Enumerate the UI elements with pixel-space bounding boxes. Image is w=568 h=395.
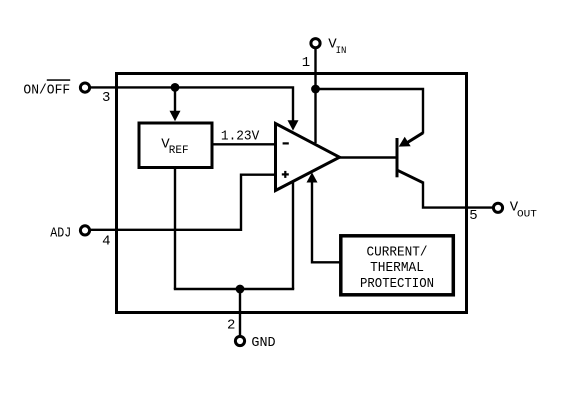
- wire ON/OFF pin to shutdown input: [90, 87, 294, 121]
- svg-text:4: 4: [102, 233, 110, 249]
- svg-text:ADJ: ADJ: [50, 225, 71, 241]
- wire branch down to VREF: [174, 87, 176, 112]
- wire ADJ to non-inverting input: [90, 175, 277, 230]
- junction dot GND node: [236, 285, 245, 294]
- wire op-amp ground down: [292, 181, 294, 290]
- transistor Q1 emitter diagonal: [404, 133, 423, 145]
- pin 2 GND terminal: [235, 336, 244, 345]
- IC outline box U1: [117, 74, 467, 313]
- ground bus wire: [174, 288, 294, 290]
- svg-text:3: 3: [102, 90, 110, 106]
- arrowhead shutdown into op-amp top: [288, 120, 299, 130]
- svg-text:CURRENT/: CURRENT/: [367, 244, 428, 260]
- wire VIN supply into op-amp: [314, 89, 316, 143]
- op-amp error amplifier A1: [276, 124, 340, 191]
- svg-text:1: 1: [302, 55, 310, 71]
- transistor Q1 base bar: [396, 138, 399, 177]
- pin 3 ON/OFF terminal: [80, 83, 89, 92]
- voltage reference VREF box: [139, 123, 212, 168]
- svg-text:5: 5: [469, 208, 477, 224]
- svg-text:PROTECTION: PROTECTION: [360, 276, 434, 292]
- wire GND node to pin 2: [239, 289, 241, 336]
- current/thermal protection block: [341, 236, 454, 295]
- pin 4 ADJ terminal: [80, 226, 89, 235]
- wire VIN to transistor emitter: [316, 89, 424, 134]
- wire op-amp output to base: [338, 156, 396, 158]
- svg-text:REF: REF: [169, 145, 189, 157]
- overline over OFF: [47, 79, 70, 81]
- pin 1 VIN terminal: [311, 39, 320, 48]
- svg-text:THERMAL: THERMAL: [370, 260, 424, 276]
- arrowhead emitter PNP: [399, 137, 411, 147]
- pin 5 VOUT terminal: [493, 203, 502, 212]
- wire VIN pin down: [314, 48, 316, 90]
- wire VREF ground down: [174, 168, 176, 290]
- junction dot VIN node: [311, 85, 320, 94]
- svg-text:2: 2: [227, 317, 235, 333]
- wire VREF output (1.23V) to inverting input: [212, 143, 276, 145]
- wire collector to VOUT pin: [423, 182, 493, 208]
- transistor Q1 collector diagonal: [398, 170, 424, 182]
- plus sign non-inverting input: [282, 173, 289, 175]
- svg-text:ON/OFF: ON/OFF: [23, 83, 70, 99]
- junction dot ON/OFF branch node: [171, 83, 180, 92]
- svg-text:GND: GND: [251, 335, 275, 351]
- arrowhead into VREF top: [170, 111, 181, 121]
- svg-text:1.23V: 1.23V: [221, 128, 260, 144]
- arrowhead protection into op-amp bottom: [307, 172, 318, 182]
- svg-text:IN: IN: [336, 45, 347, 57]
- wire protection to op-amp: [312, 176, 341, 262]
- svg-text:OUT: OUT: [517, 209, 537, 221]
- minus sign inverting input: [283, 142, 289, 144]
